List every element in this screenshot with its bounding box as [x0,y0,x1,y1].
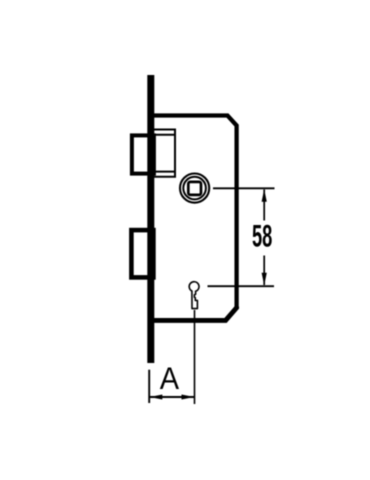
dimension 58: lower arrowhead [262,273,267,286]
lock body outline: bottom edge [153,307,237,321]
dimension 58: vertical dimension line upper part [263,190,265,221]
faceplate (thick vertical bar) [147,75,154,363]
keyhole [189,282,199,309]
dimension 58: vertical dimension line lower part [263,256,265,286]
dimension 58: lower extension line (keyhole centre) [208,285,275,287]
dimension A: right arrowhead [182,395,195,400]
latchbolt head [132,135,154,173]
dimension 58: upper extension line (spindle centre) [213,187,275,189]
dimension A: left extension tick [148,370,150,403]
dimension A: horizontal dimension line [149,396,194,398]
dimension A: right extension line [194,310,196,404]
deadbolt head [131,230,153,277]
svg-text:58: 58 [252,220,272,254]
spindle follower outer circle [180,174,209,203]
spindle follower inner circle [183,177,206,200]
dimension A: left arrowhead [150,395,163,400]
latchbolt body (inside case) [154,130,175,177]
svg-text:A: A [160,362,180,396]
spindle square hole [188,182,201,195]
dimension 58: upper arrowhead [262,189,267,202]
lock body outline: top edge and right edge [153,116,237,309]
